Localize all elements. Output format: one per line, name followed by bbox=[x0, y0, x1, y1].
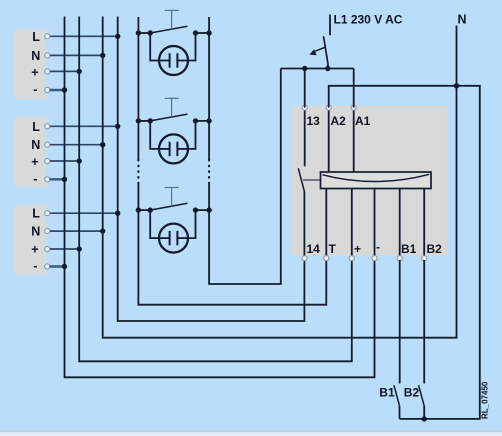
box2 terminal - bbox=[45, 177, 50, 182]
box1 terminal + bbox=[45, 69, 50, 74]
terminal T bbox=[324, 256, 329, 261]
svg-text:N: N bbox=[31, 225, 40, 239]
supply box 1 bbox=[15, 30, 47, 100]
box3 terminal N bbox=[45, 229, 50, 234]
relay - lead bbox=[374, 189, 376, 259]
svg-text:+: + bbox=[31, 243, 38, 257]
relay A2 lead bbox=[328, 108, 330, 172]
box3 wire L bbox=[50, 211, 120, 216]
junction switch 1 right contact bbox=[193, 30, 198, 35]
bus wire L bbox=[118, 17, 305, 322]
svg-text:L1 230 V AC: L1 230 V AC bbox=[334, 13, 403, 27]
wire node to 13 bbox=[304, 69, 306, 108]
svg-text:A2: A2 bbox=[331, 114, 347, 128]
svg-text:14: 14 bbox=[307, 242, 321, 256]
junction switch 2 left contact bbox=[148, 118, 153, 123]
box2 wire N bbox=[50, 142, 105, 147]
relay label 13 bbox=[307, 114, 321, 128]
svg-text:B1: B1 bbox=[379, 386, 395, 400]
junction switch 2 right contact bbox=[193, 118, 198, 123]
wire A2 to N and B bus bbox=[329, 83, 480, 421]
lamp circuit group 3 bbox=[136, 188, 212, 253]
lamp circuit group 1 bbox=[136, 10, 212, 75]
relay T lead bbox=[325, 189, 327, 259]
lamp E3 discharge lamp symbol bbox=[159, 224, 188, 253]
svg-text:N: N bbox=[458, 13, 467, 27]
svg-text:+: + bbox=[31, 65, 38, 79]
relay label - bbox=[376, 240, 380, 254]
box2 terminal N bbox=[45, 142, 50, 147]
junction switch 1 left contact bbox=[148, 30, 153, 35]
wire switch row 3 right bbox=[196, 209, 210, 211]
switch S3 blade bbox=[150, 203, 187, 210]
box1 wire N bbox=[50, 53, 105, 58]
terminal B1 bbox=[397, 256, 402, 261]
box1 terminal N bbox=[45, 53, 50, 58]
B2 label bbox=[404, 386, 420, 400]
wire lamp E2 right lead bbox=[188, 121, 196, 149]
svg-text:T: T bbox=[329, 242, 337, 256]
lamp circuit group 2 bbox=[136, 98, 212, 163]
svg-text:-: - bbox=[33, 259, 37, 273]
bus wire N bbox=[103, 17, 457, 338]
wire lamp E3 right lead bbox=[188, 210, 196, 238]
relay + lead bbox=[351, 189, 353, 259]
lamp E1 discharge lamp symbol bbox=[159, 46, 188, 75]
svg-text:-: - bbox=[33, 83, 37, 97]
switch S1 blade bbox=[150, 26, 187, 33]
terminal minus bbox=[372, 256, 377, 261]
svg-text:-: - bbox=[376, 240, 380, 254]
box2 terminal L bbox=[45, 124, 50, 129]
relay label + bbox=[354, 242, 361, 256]
supply box 2 bbox=[15, 117, 47, 187]
wire lamp E3 left lead bbox=[150, 210, 159, 238]
svg-text:B1: B1 bbox=[401, 242, 417, 256]
relay label B2 bbox=[427, 242, 443, 256]
N label bbox=[458, 13, 467, 27]
relay label B1 bbox=[401, 242, 417, 256]
relay label A2 bbox=[331, 114, 347, 128]
relay label A1 bbox=[355, 114, 371, 128]
wire switch row 3 left bbox=[138, 209, 150, 211]
bottom scan strip bbox=[0, 432, 502, 436]
L1 node wire bbox=[281, 66, 354, 71]
switch S2 actuator bbox=[165, 97, 179, 99]
relay label T bbox=[329, 242, 337, 256]
svg-text:-: - bbox=[33, 172, 37, 186]
switch S1 actuator bbox=[165, 9, 179, 11]
box1 terminal - bbox=[45, 87, 50, 92]
relay label 14 bbox=[307, 242, 321, 256]
svg-text:N: N bbox=[31, 138, 40, 152]
wire switch row 1 right bbox=[196, 32, 210, 34]
svg-text:RL_07450: RL_07450 bbox=[480, 381, 489, 419]
svg-text:N: N bbox=[31, 49, 40, 63]
box3 wire + bbox=[50, 246, 82, 251]
relay A1 lead bbox=[353, 108, 355, 172]
lamp E2 discharge lamp symbol bbox=[159, 134, 188, 163]
junction right rail row 3 bbox=[206, 207, 211, 212]
switch S2 blade bbox=[150, 114, 187, 121]
svg-text:L: L bbox=[32, 30, 40, 44]
terminal B2 bbox=[422, 256, 427, 261]
wire lamp E1 right lead bbox=[188, 33, 196, 61]
box1 terminal L bbox=[45, 34, 50, 39]
box3 terminal + bbox=[45, 246, 50, 251]
B1 label bbox=[379, 386, 395, 400]
junction left rail row 2 bbox=[136, 118, 141, 123]
junction left rail row 1 bbox=[136, 30, 141, 35]
svg-text:+: + bbox=[354, 242, 361, 256]
wire switch row 1 left bbox=[138, 32, 150, 34]
wire switch row 2 right bbox=[196, 120, 210, 122]
box3 wire - bbox=[51, 264, 68, 269]
main switch blade bbox=[324, 36, 328, 68]
relay contact 13-14 bbox=[298, 108, 320, 258]
junction switch 3 right contact bbox=[193, 207, 198, 212]
svg-text:B2: B2 bbox=[404, 386, 420, 400]
svg-text:13: 13 bbox=[307, 114, 321, 128]
box1 wire L bbox=[50, 34, 120, 39]
pushbutton B1 bbox=[394, 260, 400, 419]
bus wire minus bbox=[65, 17, 375, 378]
box1 wire - bbox=[51, 87, 68, 92]
L1 label bbox=[334, 13, 403, 27]
svg-text:+: + bbox=[31, 155, 38, 169]
terminal plus bbox=[349, 256, 354, 261]
box2 terminal + bbox=[45, 158, 50, 163]
L1 terminal line bbox=[329, 15, 331, 36]
svg-text:L: L bbox=[32, 207, 40, 221]
supply box 3 bbox=[15, 205, 47, 275]
switch arrow bbox=[309, 47, 325, 55]
box2 wire + bbox=[50, 158, 82, 163]
terminal A1 bbox=[351, 105, 356, 110]
junction right rail row 1 bbox=[206, 30, 211, 35]
figure number bbox=[480, 381, 489, 419]
lamp right rail bbox=[209, 17, 281, 284]
box3 wire N bbox=[50, 228, 105, 233]
box2 wire - bbox=[51, 177, 68, 182]
terminal 14 bbox=[302, 256, 307, 261]
wire node to A1 bbox=[353, 69, 355, 108]
junction left rail row 3 bbox=[136, 207, 141, 212]
relay box bbox=[292, 106, 447, 255]
terminal A2 bbox=[326, 105, 331, 110]
junction switch 3 left contact bbox=[148, 207, 153, 212]
svg-text:L: L bbox=[32, 120, 40, 134]
junction right rail row 2 bbox=[206, 118, 211, 123]
terminal 13 bbox=[302, 105, 307, 110]
relay B2 lead bbox=[423, 189, 425, 259]
relay coil body bbox=[321, 172, 432, 189]
lamp left rail bbox=[138, 17, 326, 305]
box3 terminal - bbox=[45, 264, 50, 269]
svg-text:A1: A1 bbox=[355, 114, 371, 128]
box3 terminal L bbox=[45, 211, 50, 216]
relay B1 lead bbox=[399, 189, 401, 259]
pushbutton B2 bbox=[419, 260, 425, 419]
wire lamp E2 left lead bbox=[150, 121, 159, 149]
box2 wire L bbox=[50, 124, 120, 129]
svg-text:B2: B2 bbox=[427, 242, 443, 256]
box1 wire + bbox=[50, 69, 82, 74]
wire lamp E1 left lead bbox=[150, 33, 159, 61]
wire switch row 2 left bbox=[138, 120, 150, 122]
bus wire plus bbox=[79, 17, 352, 362]
switch S3 actuator bbox=[165, 187, 179, 189]
